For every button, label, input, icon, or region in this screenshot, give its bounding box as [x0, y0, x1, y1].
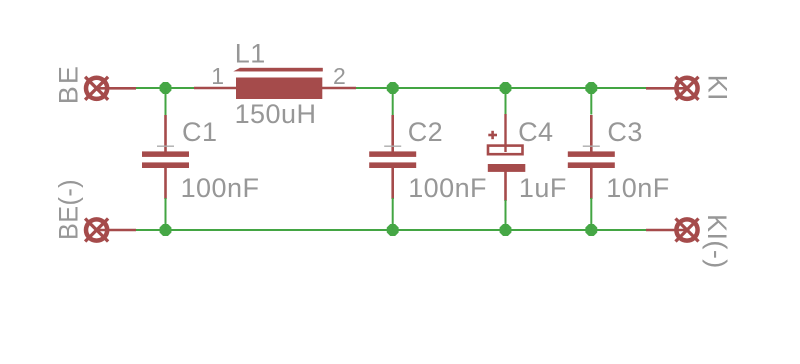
- junction bottom of C2: [387, 224, 399, 236]
- svg-text:BE(-): BE(-): [54, 179, 84, 240]
- svg-text:100nF: 100nF: [181, 173, 260, 203]
- junction top of C2: [387, 82, 399, 94]
- wire bottom net: [136, 229, 646, 231]
- junction top of C1: [160, 82, 172, 94]
- svg-text:C4: C4: [518, 117, 553, 147]
- wire C2 down to junction: [392, 198, 394, 230]
- svg-text:C2: C2: [408, 117, 443, 147]
- wire net L1 pin2 to KI: [356, 87, 646, 89]
- svg-text:C3: C3: [607, 117, 642, 147]
- pad BE(-): [85, 219, 136, 242]
- svg-text:150uH: 150uH: [235, 99, 317, 129]
- svg-text:1: 1: [211, 63, 224, 89]
- junction top of C4: [500, 82, 512, 94]
- pad KI: [646, 77, 699, 100]
- svg-text:100nF: 100nF: [408, 173, 487, 203]
- svg-text:KI: KI: [703, 75, 733, 101]
- wire C3 down to junction: [590, 198, 592, 230]
- capacitor C1: [142, 115, 189, 199]
- wire net BE to L1 pin1: [136, 87, 194, 89]
- svg-text:BE: BE: [54, 64, 84, 104]
- wire junction down to C4: [505, 88, 507, 114]
- svg-text:10nF: 10nF: [606, 173, 669, 203]
- svg-text:C1: C1: [182, 117, 217, 147]
- inductor L1: [194, 68, 356, 99]
- junction bottom of C3: [585, 224, 597, 236]
- capacitor C4 electrolytic: [488, 114, 526, 201]
- pad BE: [85, 77, 136, 100]
- junction bottom of C1: [160, 224, 172, 236]
- svg-text:1uF: 1uF: [519, 173, 567, 203]
- wire junction down to C3: [590, 88, 592, 115]
- wire C1 down to junction: [165, 198, 167, 230]
- capacitor C3: [568, 115, 615, 199]
- wire junction down to C2: [392, 88, 394, 116]
- svg-text:2: 2: [333, 63, 346, 89]
- pad KI(-): [646, 219, 699, 242]
- capacitor C2: [369, 115, 416, 199]
- svg-text:L1: L1: [235, 39, 266, 69]
- svg-text:KI(-): KI(-): [702, 214, 732, 269]
- junction bottom of C4: [500, 224, 512, 236]
- wire C4 down to junction: [505, 200, 507, 230]
- junction top of C3: [585, 82, 597, 94]
- wire junction down to C1: [165, 88, 167, 116]
